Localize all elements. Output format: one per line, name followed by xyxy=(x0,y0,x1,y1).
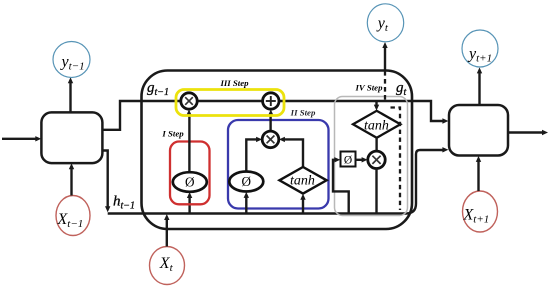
svg-text:Ø: Ø xyxy=(242,174,252,189)
svg-text:IV Step: IV Step xyxy=(355,83,384,93)
svg-text:tanh: tanh xyxy=(364,119,389,134)
multiplier node II xyxy=(262,131,279,148)
node y_t xyxy=(367,4,403,42)
wire g_t-1 from left cell through cell to right cell xyxy=(102,101,448,130)
wire sigmoid II to multiplier II xyxy=(246,137,262,172)
wire bus to sigmoid I xyxy=(187,192,192,214)
svg-text:I Step: I Step xyxy=(161,129,184,139)
svg-text:Ø: Ø xyxy=(185,175,195,190)
wire bus to tanh II xyxy=(300,194,305,214)
adder node III xyxy=(263,93,279,109)
output arrow from right cell xyxy=(508,130,548,135)
wire X_t up to bus xyxy=(164,214,169,247)
sigmoid node I xyxy=(173,172,207,192)
svg-text:Ø: Ø xyxy=(344,155,352,167)
node X_t xyxy=(150,247,185,285)
node y_t-1 xyxy=(53,42,90,78)
multiplier node IV xyxy=(368,151,385,168)
left RNN cell xyxy=(41,112,102,163)
multiplier node III xyxy=(181,93,197,109)
node y_t+1 xyxy=(462,30,498,67)
sigmoid node II xyxy=(229,172,263,192)
node X_t-1 xyxy=(56,196,90,236)
wire X_t+1 to right cell xyxy=(476,156,481,191)
dashed boundary line g_t xyxy=(391,108,401,211)
wire g line down into tanh IV xyxy=(374,101,379,111)
II Step blue frame xyxy=(228,120,329,209)
wire left cell to y_t-1 xyxy=(68,77,73,112)
wire multiplier IV down to bus xyxy=(375,169,377,214)
wire multiplier II up to adder III xyxy=(268,109,273,131)
wire h_t-1 from left cell down xyxy=(102,151,110,213)
wire input arrow into left cell xyxy=(2,136,41,141)
wire bus to sigmoid II xyxy=(244,192,249,214)
output gate sigmoid square IV xyxy=(341,152,356,167)
wire X_t-1 to left cell xyxy=(69,163,74,195)
svg-text:tanh: tanh xyxy=(290,174,315,189)
wire tanh IV to multiplier IV xyxy=(375,138,377,152)
recurrent cell body xyxy=(142,71,413,230)
tanh diamond IV xyxy=(353,111,400,138)
node X_t+1 xyxy=(463,191,498,232)
wire right cell to y_t+1 xyxy=(477,67,482,105)
wire bus zigzag to output gate IV xyxy=(333,160,349,214)
right RNN cell xyxy=(449,105,508,156)
svg-text:III Step: III Step xyxy=(219,78,249,88)
bus wire h across cell to right cell xyxy=(108,147,449,213)
IV Step gray frame xyxy=(335,97,408,216)
wire sigmoid I up to multiplier III xyxy=(186,109,191,172)
svg-text:II Step: II Step xyxy=(290,108,316,118)
dashed wire g junction up to cell edge (y_t tap) xyxy=(384,71,386,101)
wire g line up to y_t xyxy=(382,42,387,72)
I Step red frame xyxy=(170,142,210,205)
wire gate square to multiplier IV xyxy=(356,157,368,162)
III Step yellow frame xyxy=(176,90,284,116)
tanh diamond II xyxy=(279,167,326,194)
wire tanh II to multiplier II xyxy=(279,137,303,167)
